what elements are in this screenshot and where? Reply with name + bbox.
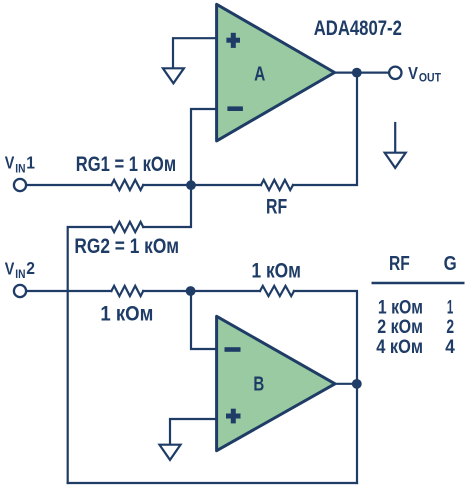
wire: VIN1 terminal to resistor RG1 [26, 184, 111, 186]
ground at op-amp B non-inverting input [160, 445, 181, 460]
gain table row 1: RF 1 kOhm [378, 296, 453, 318]
svg-text:2 кОм: 2 кОм [377, 316, 423, 338]
wire: bottom feedback rail [68, 482, 357, 484]
wire: resistor R3 to node N2 [143, 290, 191, 292]
svg-text:G: G [444, 252, 457, 275]
resistor RG2 [111, 222, 143, 232]
terminal VIN2 [14, 285, 26, 297]
svg-text:1 кОм: 1 кОм [378, 296, 423, 318]
plus mark on op-amp A [226, 33, 240, 48]
svg-text:A: A [254, 64, 265, 86]
svg-text:OUT: OUT [419, 71, 442, 85]
svg-text:1: 1 [447, 296, 453, 318]
svg-text:RF: RF [266, 196, 287, 219]
wire: node N2 to feedback resistor R4 [191, 290, 260, 292]
terminal VIN1 [14, 179, 26, 191]
node: A output junction [352, 68, 362, 78]
wire: op-amp B non-inverting input [170, 419, 216, 445]
ground at op-amp A non-inverting input [163, 68, 184, 83]
svg-text:RG2 = 1 кОм: RG2 = 1 кОм [74, 235, 179, 258]
resistor RF [261, 180, 293, 190]
ground below VOUT [385, 123, 406, 168]
label VIN2 [5, 258, 35, 281]
svg-text:B: B [253, 374, 264, 396]
plus mark on op-amp B [226, 409, 241, 424]
node N1 (junction of RG1, RG2, RF, A inverting input) [186, 180, 196, 190]
node: B output junction [352, 379, 362, 389]
label VOUT [408, 63, 441, 85]
svg-text:2: 2 [26, 258, 35, 278]
wire: RF feedback from node N1 [191, 184, 261, 186]
resistor R3 (1 kOhm at VIN2) [111, 286, 143, 296]
wire: op-amp B output to rail [335, 383, 357, 385]
resistor RG1 [111, 180, 143, 190]
wire: node N1 up to op-amp A inverting input [191, 109, 216, 185]
svg-text:1 кОм: 1 кОм [100, 302, 153, 325]
svg-text:IN: IN [15, 162, 25, 175]
svg-text:RG1 = 1 кОм: RG1 = 1 кОм [76, 153, 176, 176]
svg-text:2: 2 [446, 316, 454, 338]
svg-text:4 кОм: 4 кОм [376, 336, 423, 358]
svg-text:1 кОм: 1 кОм [252, 259, 302, 282]
svg-text:V: V [5, 153, 15, 173]
label VIN1 [5, 152, 36, 175]
minus mark on op-amp B [225, 347, 241, 352]
node N2 (junction of R3, R4, B inverting input) [186, 286, 196, 296]
wire: VIN2 terminal to input resistor R3 [26, 290, 111, 292]
svg-text:IN: IN [15, 268, 25, 281]
minus mark on op-amp A [227, 106, 243, 111]
gain table row 2: RF 2 kOhm [377, 316, 454, 338]
wire: resistor R4 to B output rail [294, 291, 357, 483]
wire: resistor RF to A output [293, 73, 357, 185]
svg-text:RF: RF [389, 252, 410, 275]
svg-text:V: V [408, 63, 418, 83]
svg-text:1: 1 [26, 152, 35, 172]
gain table row 3: RF 4 kOhm [376, 336, 455, 358]
wire: resistor RG1 to node N1 [143, 184, 191, 186]
op-amp U1A [217, 4, 335, 141]
resistor R4 (1 kOhm feedback of B) [260, 286, 294, 296]
wire: node N1 down to resistor RG2 [143, 185, 191, 227]
svg-text:V: V [5, 258, 15, 278]
wire: op-amp A output to VOUT terminal [334, 71, 389, 73]
svg-text:4: 4 [445, 336, 455, 358]
wire: resistor RG2 left then down to bottom feedback rail [68, 227, 112, 483]
terminal VOUT [389, 67, 401, 79]
wire: op-amp A non-inverting input [173, 38, 216, 68]
wire: node N2 down to op-amp B inverting input [191, 291, 216, 349]
op-amp U1B [217, 316, 335, 450]
gain table header rule [372, 282, 465, 284]
svg-text:ADA4807-2: ADA4807-2 [314, 17, 402, 40]
